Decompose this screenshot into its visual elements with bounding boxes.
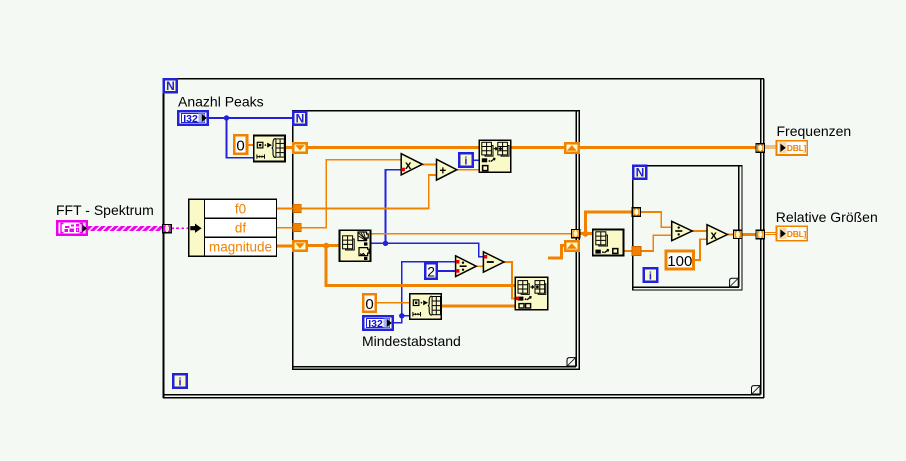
divide triangle loop3 <box>672 221 693 240</box>
junction dot on orange wire at (585.5,233.7) <box>583 231 589 237</box>
coercion dot array-subset index input <box>516 297 520 301</box>
subtract triangle loop2 <box>483 252 504 272</box>
wire: FFT-Spektrum cluster wire hatched (magenta) <box>88 226 164 231</box>
coercion dot divide lower input <box>456 269 460 273</box>
loop1 N terminal <box>164 79 177 93</box>
wire: unbundle magnitude to lower left shift register (orange array) <box>277 245 293 248</box>
loop1 resize corner <box>752 386 761 394</box>
loop3 resize corner <box>730 278 739 286</box>
shift register left top (down arrow) <box>293 143 307 153</box>
scalar tunnel loop3 left lower (solid orange) <box>632 246 641 255</box>
outer for-loop frame (loop 1) <box>163 78 764 398</box>
numeric constant 2 <box>425 263 436 279</box>
wire: constant 0 to Initialize Array 1 element input (orange scalar) <box>248 144 254 146</box>
array-max-min node <box>340 230 371 261</box>
svg-text:Mindestabstand: Mindestabstand <box>362 333 461 349</box>
wire: loop3 indexing tunnel to divide upper input (orange scalar) <box>641 212 672 227</box>
junction dot on blue wire at (401.8,315.8) <box>399 313 404 318</box>
inner for-loop frame (loop 2) <box>292 110 580 370</box>
svg-text:I32: I32 <box>368 318 383 330</box>
wire: Initialize Array 1 to left shift register (orange array) <box>285 146 292 149</box>
index-array node <box>593 230 624 256</box>
tunnel Frequenzen on loop1 right <box>756 144 764 152</box>
wire: right shift register out to Frequenzen tunnel (orange array) <box>580 146 756 149</box>
svg-text:DBL]: DBL] <box>787 143 807 153</box>
loop1 i terminal <box>173 374 186 388</box>
wire: Mindestabstand I32 up to divide upper input (blue) <box>392 262 456 323</box>
svg-text:0: 0 <box>365 296 373 313</box>
wire: branch to Initialize Array 2 dimension input (blue) <box>402 315 410 317</box>
junction dot on blue wire at (385.5,243.3) <box>383 241 388 246</box>
I32 control Anazhl Peaks <box>178 111 208 125</box>
wire: add output to Replace Array Subset element input (orange scalar) <box>456 169 479 171</box>
svg-text:N: N <box>296 112 305 126</box>
wire: constant 2 to divide lower input (blue) <box>438 270 456 272</box>
wire: constant 0 to Initialize Array 2 element input (orange scalar) <box>376 302 410 304</box>
wire: divide output to subtract lower input (orange scalar) <box>476 265 484 267</box>
wire: df tunnel to multiply upper input (orange scalar) <box>301 160 401 228</box>
DBL array indicator Relative Groessen <box>777 226 808 240</box>
loop2 i terminal <box>459 153 472 167</box>
initialize-array node 2 (bottom) <box>410 294 442 320</box>
wire: Index Array output to loop3 scalar tunnel (orange scalar) <box>624 250 633 252</box>
wire: multiply output to add upper input (orange scalar) <box>422 163 436 165</box>
wire: loop3 scalar tunnel to divide lower input (orange scalar) <box>641 235 672 251</box>
svg-text:I32: I32 <box>183 113 198 125</box>
array-subset node <box>515 277 548 310</box>
svg-text:DBL]: DBL] <box>787 229 807 239</box>
indexing tunnel loop3 left upper <box>632 208 640 216</box>
svg-text:N: N <box>166 79 175 93</box>
svg-text:+: + <box>440 165 447 177</box>
svg-text:FFT - Spektrum: FFT - Spektrum <box>56 202 154 218</box>
svg-text:Relative Größen: Relative Größen <box>776 209 878 225</box>
unbundle-by-name node (f0 / df / magnitude) <box>189 199 277 256</box>
coercion dot divide upper input <box>456 260 460 264</box>
svg-text:Frequenzen: Frequenzen <box>777 123 852 139</box>
svg-text:magnitude: magnitude <box>209 240 272 255</box>
svg-text:i: i <box>464 155 467 167</box>
wire: branch up to multiply lower input (blue) <box>386 170 402 244</box>
initialize-array node 1 (top) <box>254 136 285 162</box>
loop2 resize corner <box>567 358 576 366</box>
FFT-Spektrum cluster-array control <box>57 221 87 235</box>
wire: Array Max&amp;Min max-value output to loop2 indexing tunnel (orange scalar) <box>371 233 573 235</box>
multiply triangle loop3 <box>707 225 727 245</box>
wire: loop3 output tunnel to Relative tunnel (orange array) <box>742 233 756 236</box>
wire: unbundle df output to tunnel (orange scalar) <box>277 227 294 229</box>
divide triangle loop2 <box>456 256 477 277</box>
I32 control Mindestabstand <box>363 316 393 330</box>
wire: Relative tunnel to indicator (orange 2D double line) <box>765 233 777 235</box>
coercion dot subtract upper input <box>484 255 488 259</box>
svg-text:2: 2 <box>427 263 435 279</box>
multiply triangle loop2 <box>401 154 422 175</box>
wire: loop2 indexing tunnel to Index Array node (orange array) <box>579 232 593 235</box>
wire: constant 100 to multiply lower input (orange scalar) <box>695 239 707 260</box>
svg-text:0: 0 <box>236 138 244 155</box>
tunnel f0 (solid orange) loop2 left <box>293 204 301 212</box>
numeric constant 100 <box>666 251 693 270</box>
coercion dot multiply lower input <box>401 168 405 172</box>
shift register right bottom (up arrow) <box>565 241 579 251</box>
shift register right top (up arrow) <box>565 143 579 153</box>
indexing tunnel loop3 right <box>734 230 742 238</box>
wire: Initialize Array 2 output to Array Subset length input (orange array) <box>442 305 516 308</box>
add triangle loop2 <box>437 159 457 180</box>
svg-text:df: df <box>235 220 247 235</box>
svg-text:f0: f0 <box>235 201 246 216</box>
wire: unbundle f0 output to tunnel (orange scalar) <box>277 208 294 210</box>
DBL array indicator Frequenzen <box>777 141 808 155</box>
wire: subtract output to Array Subset index input (orange scalar) <box>504 262 515 298</box>
wire: branch down to Array Subset array input (orange array) <box>326 246 515 286</box>
indexing tunnel loop2 right <box>571 229 579 237</box>
replace-array-subset node <box>479 140 510 172</box>
wire: multiply output to loop3 output tunnel (orange scalar) <box>727 234 734 236</box>
junction dot on orange wire at (326.2,245.7) <box>323 243 329 249</box>
numeric constant 0 (bottom) <box>363 294 376 313</box>
loop3 i terminal <box>644 268 657 282</box>
wire: branch up into loop3 indexing tunnel (orange array) <box>586 212 633 234</box>
wire: Frequenzen tunnel to indicator (orange 2D double line) <box>765 146 777 148</box>
svg-text:i: i <box>178 376 181 388</box>
svg-text:N: N <box>636 166 645 180</box>
small for-loop frame (loop 3) <box>632 165 742 291</box>
svg-text:100: 100 <box>667 253 692 270</box>
svg-text:x: x <box>405 160 412 172</box>
tunnel Relative Groessen on loop1 right <box>756 230 764 238</box>
wire: divide output to multiply upper input loop3 (orange scalar) <box>692 230 707 232</box>
svg-text:i: i <box>649 270 652 282</box>
wire: loop2 i terminal to Replace Array Subset index input (blue) <box>474 159 479 161</box>
svg-text:Anazhl Peaks: Anazhl Peaks <box>178 93 264 109</box>
junction dot on blue wire at (226.5,118) <box>224 115 229 120</box>
shift register left bottom (down arrow) <box>293 241 307 251</box>
wire: Anazhl Peaks I32 to loop2 N terminal (blue) <box>209 117 293 119</box>
wire: f0 tunnel to add lower input (orange scalar) <box>301 175 437 209</box>
wire: branch down to Initialize Array 1 dimension input (blue) <box>227 118 254 158</box>
loop2 N terminal <box>293 112 306 126</box>
wire: shift register across loop2 to Replace Array Subset and right shift register (orange array) <box>308 146 564 149</box>
tunnel FFT cluster input on loop1 (indexing disabled) <box>163 224 171 232</box>
svg-text:x: x <box>711 230 718 242</box>
tunnel df (solid orange) loop2 left <box>293 223 301 231</box>
wire: lower shift register to Array Max&amp;Min (orange array) <box>308 244 340 247</box>
numeric constant 0 (top) <box>234 135 247 154</box>
wire: Array Subset output up to lower right shift register (orange array) <box>548 246 564 258</box>
loop3 N terminal <box>633 166 646 180</box>
wire: Array Max&amp;Min max-index output to subtract (blue) <box>371 243 484 256</box>
wire: cluster wire inside loop to unbundle (magenta dashed) <box>171 227 189 229</box>
